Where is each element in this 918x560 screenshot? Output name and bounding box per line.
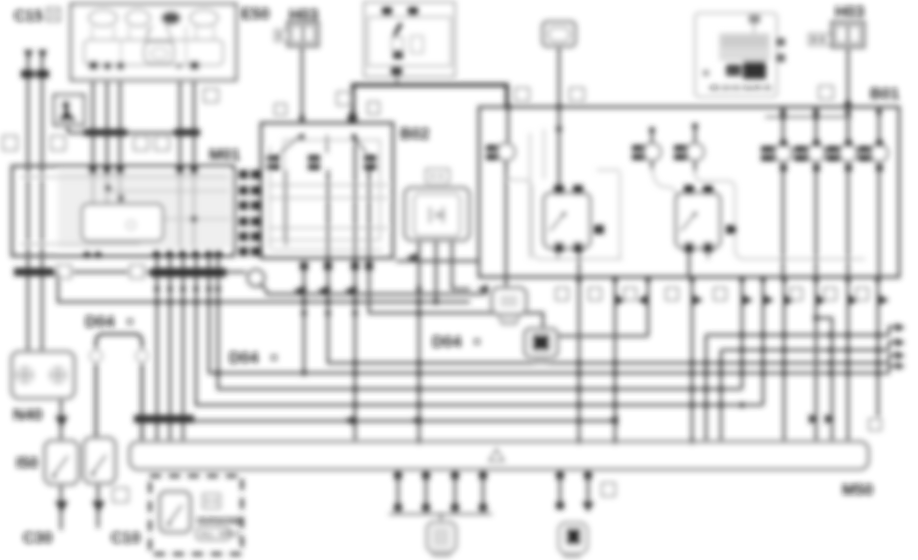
svg-text:B01: B01 [870, 86, 899, 103]
svg-text:4B.10.01 MAR.03: 4B.10.01 MAR.03 [709, 84, 773, 93]
svg-text:D04: D04 [432, 334, 461, 351]
svg-text:C30: C30 [23, 530, 52, 547]
svg-text:ALL. SPEC: ALL. SPEC [200, 530, 241, 539]
svg-text:D04: D04 [229, 350, 258, 367]
svg-text:M50: M50 [842, 482, 873, 499]
svg-text:N40: N40 [13, 407, 42, 424]
svg-text:✕: ✕ [269, 351, 279, 365]
svg-text:B02: B02 [400, 126, 429, 143]
svg-text:C15: C15 [14, 8, 43, 25]
svg-text:✕: ✕ [472, 335, 482, 349]
svg-text:I50: I50 [16, 455, 38, 472]
svg-text:M01: M01 [209, 147, 240, 164]
svg-text:H03: H03 [835, 4, 864, 21]
svg-text:D04: D04 [85, 314, 114, 331]
svg-text:✕: ✕ [125, 315, 135, 329]
svg-text:E50: E50 [241, 6, 270, 23]
svg-text:VERSIONE: VERSIONE [196, 516, 243, 526]
svg-text:C10: C10 [111, 530, 140, 547]
